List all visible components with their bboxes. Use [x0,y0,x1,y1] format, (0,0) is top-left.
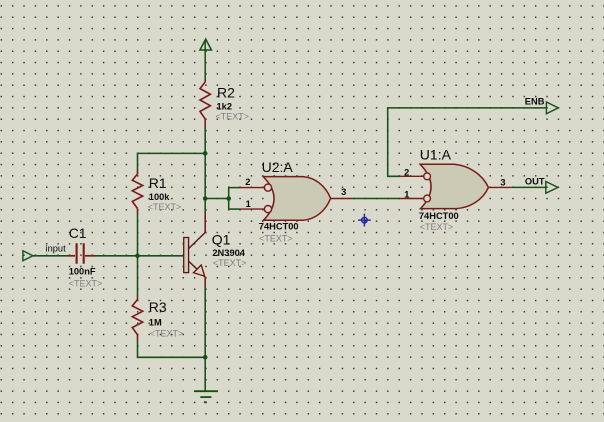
U2 pin 1 lead [241,208,265,210]
svg-text:R1: R1 [149,175,167,191]
svg-text:<TEXT>: <TEXT> [69,278,103,288]
svg-text:U1:A: U1:A [420,146,452,162]
capacitor C1 [68,243,95,264]
junction node U2 input feed [226,196,231,201]
svg-text:74HCT00: 74HCT00 [259,222,299,232]
junction node base/R1/R3 [135,254,140,259]
wire U2 out to U1 pin1 [352,198,401,200]
U2 pin 2 lead [241,187,265,189]
ENB terminal [546,102,558,114]
svg-text:3: 3 [500,178,505,188]
svg-text:1M: 1M [149,317,162,327]
svg-text:<TEXT>: <TEXT> [213,258,247,268]
resistor R3 [132,295,142,341]
svg-text:R3: R3 [149,299,167,315]
wire input terminal to C1 [33,255,68,257]
svg-text:<TEXT>: <TEXT> [150,329,184,339]
U1 pin 1 lead [401,198,424,200]
svg-text:100nF: 100nF [69,267,96,277]
svg-text:2N3904: 2N3904 [212,248,245,258]
svg-text:2: 2 [245,177,250,187]
wire rail to R1 top [138,153,206,170]
junction node rail/gate feed [203,196,208,201]
OUT terminal [546,182,558,194]
transistor Q1 [184,233,206,278]
U1 pin 2 lead [401,175,424,177]
resistor R1 [132,170,142,214]
svg-text:1: 1 [246,199,251,209]
svg-text:3: 3 [341,187,346,197]
wire R1 bottom to base node [137,214,139,256]
svg-text:2: 2 [404,167,409,177]
origin marker [358,214,371,227]
wire U2 output pin lead [331,198,352,200]
wire base node down to R3 [137,256,139,295]
wire U1 output pin lead [488,186,511,188]
ground [194,391,218,402]
svg-text:input: input [46,244,67,254]
wire U1 out to OUT terminal [512,186,546,188]
junction node rail/R1 [203,151,208,156]
wire emitter pin stub [204,277,206,287]
NAND gate U2:A body [263,177,330,221]
wire R3 bottom to ground rail [138,341,206,357]
wire collector pin stub [204,212,206,233]
svg-text:ENB: ENB [525,97,545,107]
svg-text:100k: 100k [149,192,171,202]
svg-text:U2:A: U2:A [262,159,294,175]
svg-text:OUT: OUT [525,176,545,186]
input terminal [23,251,33,261]
power symbol VCC arrow [200,39,212,79]
NAND gate U1:A body [420,164,488,208]
wire emitter down to ground node [204,287,206,392]
svg-text:C1: C1 [69,225,87,241]
wire ENB net to U1 pin2 [388,108,547,176]
junction node emitter/R3/ground [203,355,208,360]
svg-text:<TEXT>: <TEXT> [259,234,293,244]
svg-text:<TEXT>: <TEXT> [420,222,454,232]
svg-text:74HCT00: 74HCT00 [419,211,459,221]
wire C1 to base of Q1 [95,255,184,257]
svg-text:1k2: 1k2 [217,101,233,111]
svg-text:R2: R2 [217,84,235,100]
svg-text:1: 1 [404,189,409,199]
wire rail R2 bottom to collector [204,127,206,212]
svg-text:<TEXT>: <TEXT> [216,112,250,122]
svg-text:Q1: Q1 [212,231,231,247]
resistor R2 [200,79,210,127]
wire U2 input split [229,188,241,210]
wire rail to U2 input node [205,198,229,200]
svg-text:<TEXT>: <TEXT> [148,202,182,212]
